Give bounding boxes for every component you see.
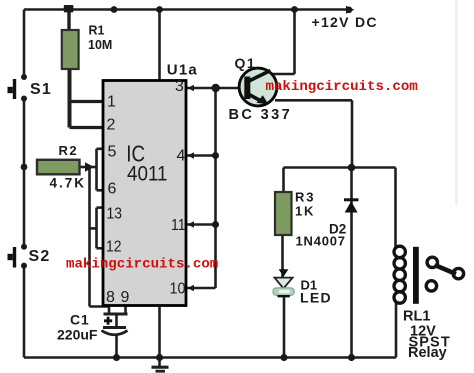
svg-text:220uF: 220uF xyxy=(57,327,98,343)
svg-text:11: 11 xyxy=(171,217,186,234)
svg-text:4: 4 xyxy=(177,148,186,165)
svg-text:5: 5 xyxy=(108,144,117,161)
svg-text:4011: 4011 xyxy=(127,162,168,186)
svg-text:BC 337: BC 337 xyxy=(229,107,293,123)
svg-text:12: 12 xyxy=(106,239,122,256)
svg-text:2: 2 xyxy=(107,117,116,134)
svg-text:8: 8 xyxy=(106,289,115,306)
svg-text:LED: LED xyxy=(300,290,332,306)
svg-text:RL1: RL1 xyxy=(403,309,430,325)
svg-text:10: 10 xyxy=(170,281,186,298)
svg-text:S1: S1 xyxy=(30,81,52,98)
svg-text:R2: R2 xyxy=(59,143,79,158)
svg-text:makingcircuits.com: makingcircuits.com xyxy=(66,257,218,273)
svg-text:R3: R3 xyxy=(295,190,315,205)
svg-text:S2: S2 xyxy=(29,248,51,265)
svg-text:1: 1 xyxy=(107,94,116,111)
svg-text:3: 3 xyxy=(175,78,184,95)
svg-text:makingcircuits.com: makingcircuits.com xyxy=(266,79,418,95)
svg-text:U1a: U1a xyxy=(167,62,198,79)
svg-text:13: 13 xyxy=(107,205,123,222)
svg-text:Relay: Relay xyxy=(408,345,447,361)
svg-text:C1: C1 xyxy=(70,312,90,328)
svg-text:10M: 10M xyxy=(88,38,112,52)
svg-text:+12V DC: +12V DC xyxy=(312,14,378,30)
svg-text:9: 9 xyxy=(121,289,130,306)
svg-text:Q1: Q1 xyxy=(235,55,257,71)
svg-text:6: 6 xyxy=(108,181,117,198)
svg-text:1N4007: 1N4007 xyxy=(296,234,346,249)
svg-text:1K: 1K xyxy=(295,204,315,219)
svg-text:R1: R1 xyxy=(89,24,105,38)
svg-text:4.7K: 4.7K xyxy=(50,176,87,191)
